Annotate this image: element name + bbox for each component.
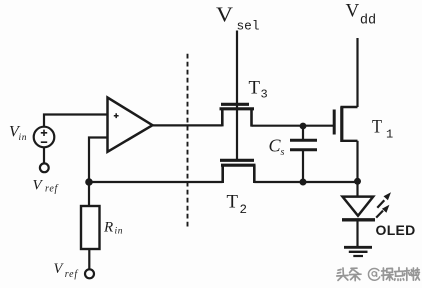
label T1 bbox=[372, 117, 393, 142]
svg-text:ref: ref bbox=[45, 184, 59, 195]
label Vsel bbox=[216, 3, 260, 34]
wire T3 to T1 gate bbox=[252, 125, 335, 127]
label Vref bottom bbox=[54, 261, 79, 280]
terminal Vref top bbox=[40, 163, 49, 172]
glyph tou bbox=[337, 268, 348, 280]
svg-text:in: in bbox=[115, 227, 124, 237]
node Cs top junction bbox=[300, 123, 307, 130]
wire resistor to Vref terminal bbox=[88, 249, 90, 270]
svg-text:3: 3 bbox=[261, 88, 268, 102]
wire source bottom to Vref terminal bbox=[43, 148, 45, 165]
wire feedback to T2 bbox=[89, 181, 223, 183]
svg-text:ref: ref bbox=[65, 269, 79, 280]
svg-text:T: T bbox=[249, 78, 261, 99]
wire Vdd bbox=[356, 38, 358, 107]
label Vin bbox=[9, 124, 27, 144]
svg-text:2: 2 bbox=[240, 203, 248, 217]
glyph ke bbox=[404, 268, 412, 280]
transistor T2 bbox=[220, 160, 256, 183]
label Rin bbox=[103, 220, 123, 237]
label Vref top bbox=[33, 178, 59, 195]
node feedback junction bbox=[85, 178, 93, 186]
svg-text:1: 1 bbox=[386, 128, 393, 142]
transistor T3 bbox=[220, 104, 255, 126]
glyph tiao bbox=[350, 268, 361, 280]
svg-text:V: V bbox=[33, 178, 44, 194]
resistor Rin bbox=[81, 206, 100, 249]
label Vdd bbox=[346, 1, 377, 29]
dashed partition line bbox=[187, 54, 189, 229]
op-amp U1 bbox=[108, 98, 153, 152]
wire op-amp output to T3 bbox=[153, 124, 223, 126]
diode OLED anode triangle bbox=[343, 197, 374, 216]
wire OLED to ground bbox=[356, 222, 358, 247]
wire junction to resistor bbox=[88, 184, 90, 206]
svg-text:dd: dd bbox=[360, 14, 376, 29]
glyph ji bbox=[412, 268, 420, 280]
label T2 bbox=[227, 192, 248, 218]
arrow light emission 1 bbox=[377, 192, 391, 208]
glyph dian bbox=[395, 268, 404, 281]
terminal Vref bottom bbox=[85, 269, 94, 278]
svg-text:V: V bbox=[346, 1, 360, 22]
ground bbox=[344, 247, 372, 256]
wire Vin to op-amp non-inverting input bbox=[44, 115, 108, 128]
diode OLED cathode bar bbox=[342, 218, 375, 221]
svg-text:T: T bbox=[227, 192, 239, 213]
capacitor Cs bbox=[290, 126, 317, 182]
transistor T1 bbox=[334, 107, 357, 143]
label T3 bbox=[249, 78, 268, 102]
wire T2 to storage node bbox=[254, 181, 357, 183]
glyph tan bbox=[382, 268, 393, 280]
svg-text:V: V bbox=[54, 261, 65, 277]
voltage source Vin bbox=[34, 127, 55, 148]
svg-text:T: T bbox=[372, 117, 382, 138]
wire inverting input feedback bbox=[89, 138, 108, 183]
glyph at bbox=[368, 268, 379, 280]
svg-text:sel: sel bbox=[237, 19, 260, 34]
svg-text:s: s bbox=[281, 147, 285, 158]
svg-text:V: V bbox=[216, 3, 234, 27]
node Cs bottom junction bbox=[300, 179, 307, 186]
svg-text:R: R bbox=[103, 220, 113, 236]
wire Vsel gate line bbox=[236, 31, 238, 160]
wire T1 source to OLED bbox=[356, 141, 358, 197]
label Cs bbox=[269, 136, 285, 159]
svg-text:in: in bbox=[19, 133, 28, 143]
node T1 source junction bbox=[354, 178, 361, 185]
arrow light emission 2 bbox=[376, 205, 389, 218]
svg-text:OLED: OLED bbox=[376, 222, 416, 238]
watermark toutiao bbox=[337, 268, 420, 281]
